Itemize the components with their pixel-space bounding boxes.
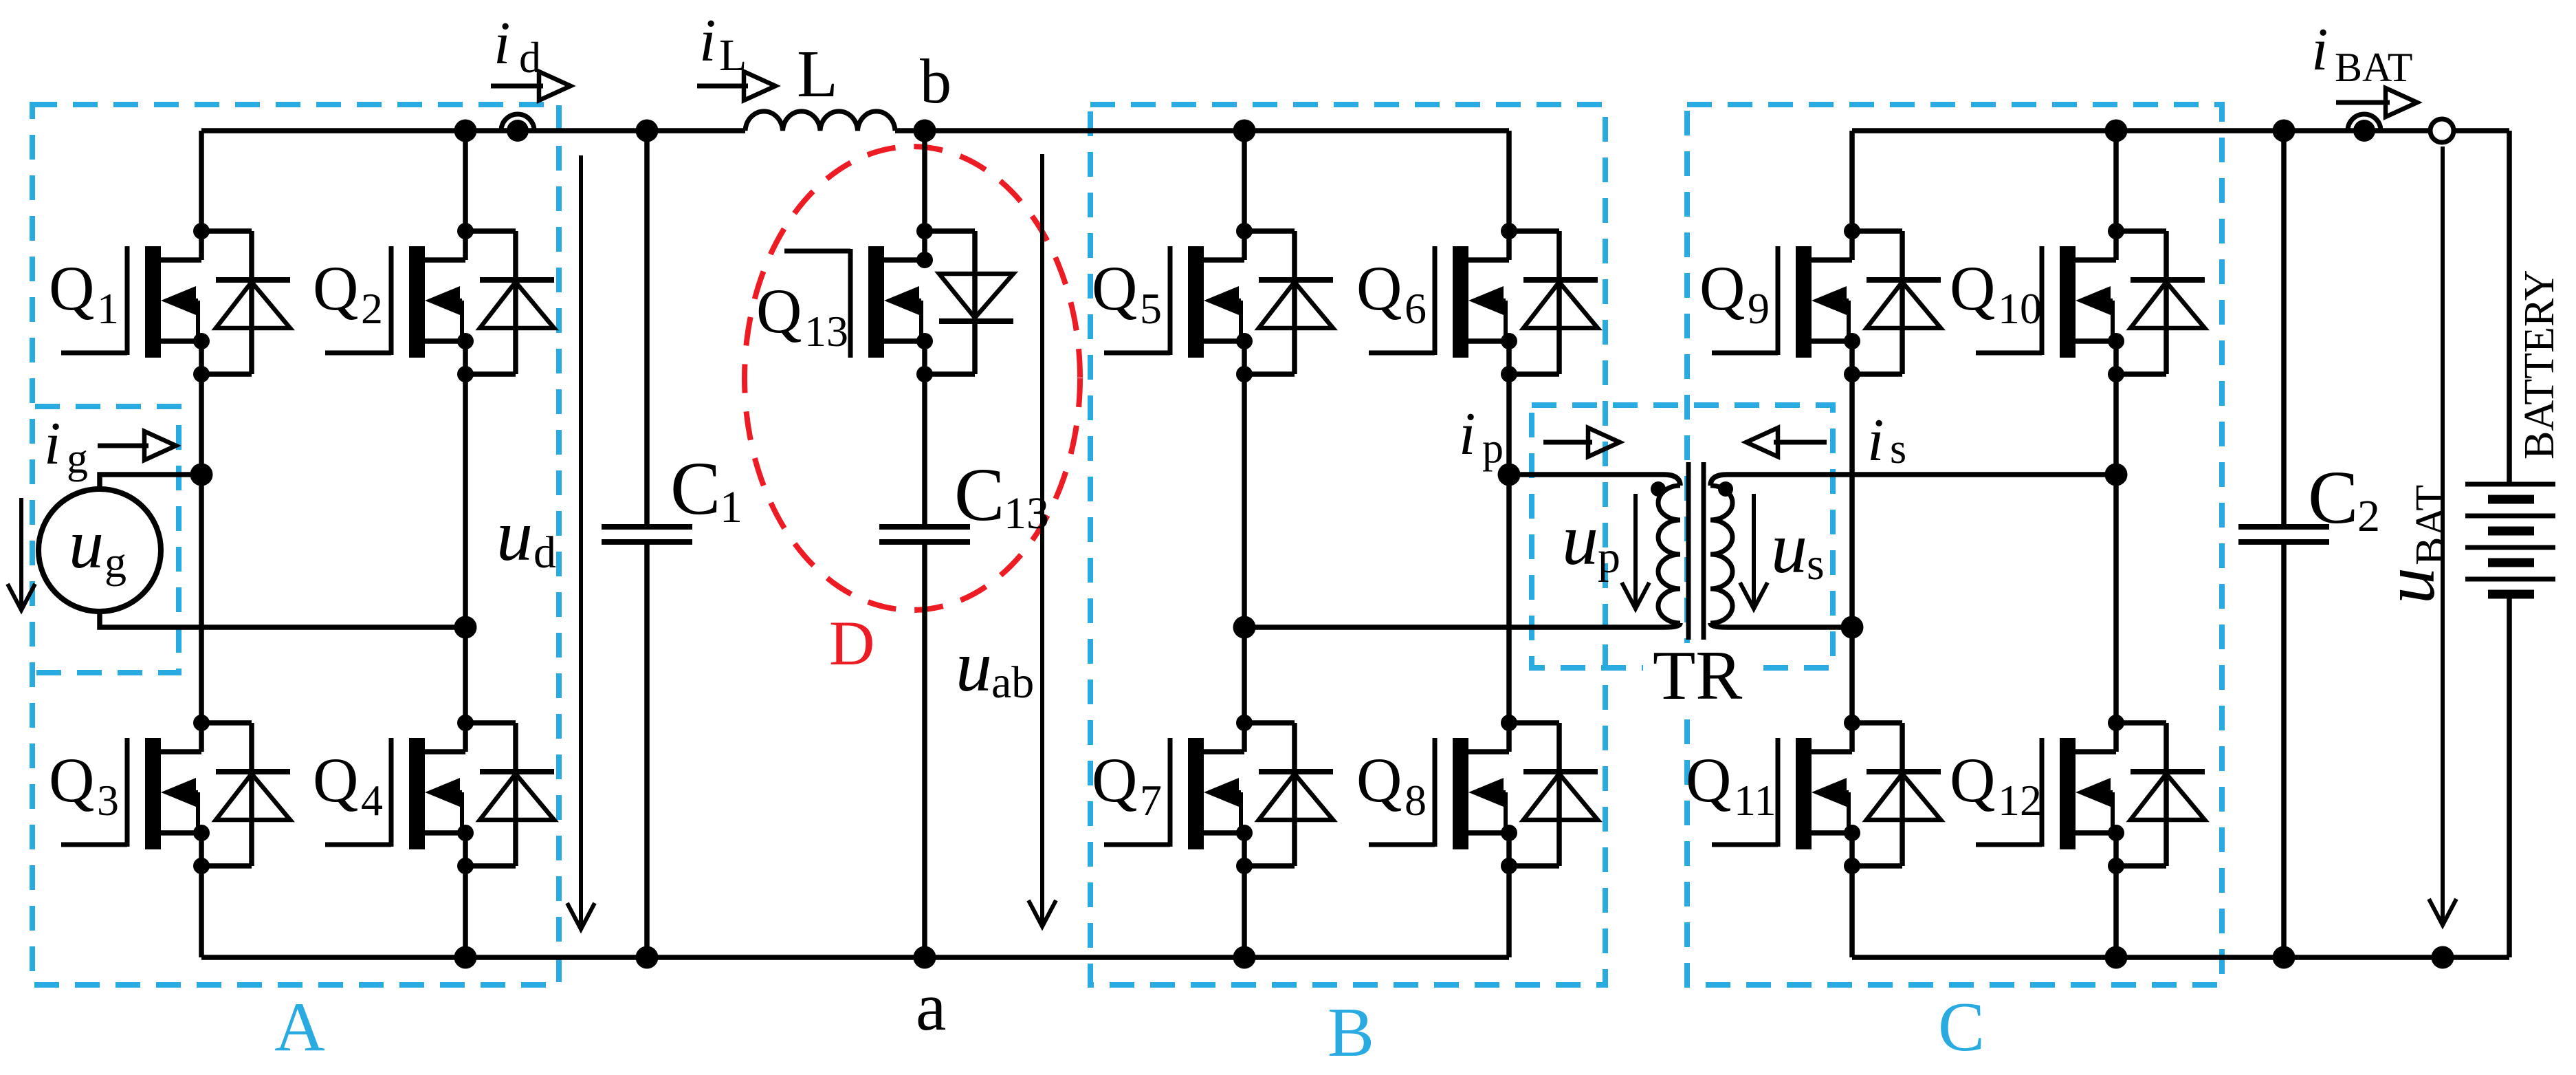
svg-text:8: 8 <box>1405 776 1427 825</box>
wire: ug bottom lead to node on leg Q2/Q4 <box>100 611 465 627</box>
wire: leg Q5/Q7 <box>1242 131 1247 260</box>
svg-text:A: A <box>274 988 325 1066</box>
svg-text:i: i <box>2311 17 2328 83</box>
wire: leg Q1/Q3 <box>199 131 204 260</box>
label Q4 <box>313 745 383 825</box>
svg-text:u: u <box>2369 567 2450 604</box>
wire: leg Q6/Q8 <box>1506 131 1512 260</box>
svg-text:B: B <box>1328 994 1374 1072</box>
svg-text:3: 3 <box>97 776 119 825</box>
capacitor C13 <box>879 527 970 542</box>
wire: battery leg <box>2507 131 2512 484</box>
transistor Q2 (MOSFET with body diode) <box>325 223 554 382</box>
dashed box TR (transformer) <box>1532 405 1833 668</box>
svg-text:i: i <box>1459 401 1475 468</box>
node: ug bottom tap <box>454 616 477 639</box>
transistor Q13 (MOSFET with body diode) <box>784 223 1013 382</box>
svg-text:L: L <box>797 37 838 111</box>
label Q8 <box>1356 745 1427 825</box>
label id <box>494 10 541 82</box>
wire: leg Q9/Q11 <box>1849 131 1855 260</box>
svg-text:Q: Q <box>1686 745 1731 815</box>
red dashed ellipse D (auxiliary circuit) <box>745 146 1080 610</box>
svg-text:C: C <box>670 446 720 530</box>
label us <box>1771 508 1825 589</box>
wire: ug top lead to node on leg Q1/Q3 <box>100 475 201 489</box>
label up <box>1562 499 1620 583</box>
label ig <box>44 411 88 482</box>
label uBAT (rotated) <box>2369 485 2454 604</box>
probe id (current measuring point on top rail) <box>501 114 534 142</box>
svg-text:1: 1 <box>97 284 119 333</box>
label Q9 <box>1699 253 1770 333</box>
arrow us <box>1752 494 1756 605</box>
dashed box B (primary full bridge) <box>1090 105 1605 985</box>
svg-text:u: u <box>69 506 104 583</box>
inductor L <box>745 111 895 131</box>
label Q13 <box>756 276 848 356</box>
terminal circle battery + <box>2430 119 2454 142</box>
svg-text:Q: Q <box>1092 745 1137 815</box>
node ip tap <box>1498 464 1521 486</box>
svg-text:u: u <box>956 626 992 706</box>
label C1 <box>670 446 742 532</box>
transistor Q1 (MOSFET with body diode) <box>61 223 290 382</box>
svg-text:Q: Q <box>313 253 358 323</box>
svg-text:7: 7 <box>1140 776 1162 825</box>
label iL <box>699 8 747 80</box>
transistor Q4 (MOSFET with body diode) <box>325 715 554 874</box>
svg-text:Q: Q <box>313 745 358 815</box>
dashed box C (secondary full bridge) <box>1687 105 2222 985</box>
svg-text:Q: Q <box>1356 745 1402 815</box>
transistor Q8 (MOSFET with body diode) <box>1369 715 1598 874</box>
node: top rail junction x=1810 <box>1233 120 1256 142</box>
svg-text:10: 10 <box>1998 284 2042 333</box>
svg-text:p: p <box>1598 532 1620 583</box>
svg-text:u: u <box>496 495 533 576</box>
svg-text:Q: Q <box>756 276 802 346</box>
polarity dot primary <box>1651 481 1666 497</box>
svg-text:4: 4 <box>361 776 383 825</box>
svg-text:i: i <box>494 10 510 77</box>
svg-text:Q: Q <box>1699 253 1745 323</box>
svg-text:TR: TR <box>1653 637 1742 715</box>
svg-text:ab: ab <box>991 658 1034 708</box>
wire: leg C2 <box>2281 131 2287 527</box>
arrow ig <box>98 444 148 448</box>
transistor Q5 (MOSFET with body diode) <box>1104 223 1333 382</box>
arrow uab <box>1040 154 1044 922</box>
svg-text:i: i <box>699 8 716 74</box>
label Q3 <box>49 745 119 825</box>
svg-text:6: 6 <box>1405 284 1427 333</box>
wire: bottom rail right (Q11 source to battery -) <box>1852 955 2509 960</box>
label uab <box>956 626 1034 708</box>
transistor Q9 (MOSFET with body diode) <box>1712 223 1941 382</box>
svg-text:Q: Q <box>49 745 94 815</box>
svg-text:BAT: BAT <box>2408 485 2454 565</box>
label Q2 <box>313 253 383 333</box>
node b <box>914 120 936 142</box>
svg-text:p: p <box>1482 425 1504 472</box>
node: top rail junction x=941 <box>636 120 659 142</box>
transistor Q12 (MOSFET with body diode) <box>1976 715 2205 874</box>
transistor Q7 (MOSFET with body diode) <box>1104 715 1333 874</box>
node: bottom rail junction x=1810 <box>1233 946 1256 969</box>
polarity dot secondary <box>1718 481 1733 497</box>
svg-text:1: 1 <box>720 482 742 532</box>
arrow iBAT <box>2336 100 2390 105</box>
node: bottom rail junction x=1345 <box>914 946 936 969</box>
svg-text:d: d <box>519 33 541 82</box>
svg-text:g: g <box>67 435 88 482</box>
svg-text:g: g <box>104 538 126 587</box>
node: top rail junction x=677 <box>454 120 477 142</box>
label iBAT <box>2311 17 2412 90</box>
arrow ug polarity (down) <box>19 498 23 606</box>
svg-text:b: b <box>920 46 951 116</box>
wire: top rail left (Q1 drain to Q6 drain, with inductor gap) <box>201 128 745 133</box>
arrow iL <box>697 84 748 89</box>
svg-text:C: C <box>1938 988 1985 1066</box>
node: top rail junction x=3078 <box>2105 120 2128 142</box>
node: bottom rail junction x=677 <box>454 946 477 969</box>
node secondary bottom tap <box>1841 616 1864 639</box>
label Q7 <box>1092 745 1162 825</box>
svg-text:s: s <box>1807 539 1825 589</box>
svg-text:i: i <box>44 411 60 477</box>
svg-text:Q: Q <box>49 253 94 323</box>
dashed box around source ug <box>35 406 179 673</box>
wire: leg Q13/C13 <box>922 131 927 260</box>
svg-text:C: C <box>2308 455 2358 539</box>
wire: bottom rail left (Q3 source to Q8 source) <box>201 955 1509 960</box>
arrow is <box>1774 440 1827 445</box>
svg-text:Q: Q <box>1092 253 1137 323</box>
svg-text:Q: Q <box>1950 745 1995 815</box>
transistor Q6 (MOSFET with body diode) <box>1369 223 1598 382</box>
svg-text:L: L <box>719 30 747 80</box>
dashed box A (grid-side full bridge) <box>32 105 559 985</box>
battery symbol <box>2465 484 2555 594</box>
arrow ud (dc-link voltage) <box>579 155 583 925</box>
transformer TR primary winding <box>1244 475 1680 627</box>
svg-text:13: 13 <box>804 307 848 356</box>
arrow uBAT <box>2441 146 2445 921</box>
svg-text:Q: Q <box>1356 253 1402 323</box>
label ug <box>69 506 126 587</box>
node secondary top tap <box>2105 464 2128 486</box>
label ip <box>1459 401 1504 472</box>
node: bottom rail junction x=3078 <box>2105 946 2128 969</box>
node: top rail junction x=3322 <box>2273 120 2296 142</box>
arrow id <box>491 84 543 89</box>
node: bottom rail junction x=3553 <box>2432 946 2454 969</box>
svg-text:BATTERY: BATTERY <box>2516 270 2563 459</box>
label C13 <box>954 453 1049 539</box>
transistor Q3 (MOSFET with body diode) <box>61 715 290 874</box>
capacitor C2 <box>2238 527 2329 542</box>
source ug (AC grid source) <box>38 489 161 611</box>
wire: top rail right (Q9 drain to battery +) <box>1852 128 2430 133</box>
wire: leg Q10/Q12 <box>2113 131 2119 260</box>
label Q1 <box>49 253 119 333</box>
label Q5 <box>1092 253 1162 333</box>
svg-text:Q: Q <box>1950 253 1995 323</box>
svg-text:i: i <box>1867 407 1884 474</box>
transistor Q11 (MOSFET with body diode) <box>1712 715 1941 874</box>
svg-text:9: 9 <box>1748 284 1770 333</box>
svg-text:2: 2 <box>361 284 383 333</box>
probe iBAT (current measuring point) <box>2348 114 2381 142</box>
svg-text:u: u <box>1562 499 1598 580</box>
node: top rail junction x=1345 <box>914 120 936 142</box>
arrow up <box>1633 494 1638 605</box>
label ud <box>496 495 556 578</box>
svg-text:s: s <box>1890 426 1906 473</box>
svg-text:a: a <box>916 968 946 1045</box>
wire: leg Q2/Q4 <box>463 131 468 260</box>
node: bottom rail junction x=3322 <box>2273 946 2296 969</box>
svg-text:BAT: BAT <box>2335 45 2412 90</box>
label Q12 <box>1950 745 2042 825</box>
svg-text:12: 12 <box>1998 776 2042 825</box>
svg-text:u: u <box>1771 508 1807 588</box>
svg-text:5: 5 <box>1140 284 1162 333</box>
wire: leg C1 <box>644 131 650 527</box>
svg-text:d: d <box>533 528 556 578</box>
svg-text:11: 11 <box>1734 776 1776 825</box>
svg-text:C: C <box>954 453 1004 536</box>
transistor Q10 (MOSFET with body diode) <box>1976 223 2205 382</box>
node: bottom rail junction x=941 <box>636 946 659 969</box>
label is <box>1867 407 1906 474</box>
label C2 <box>2308 455 2380 541</box>
node primary bottom tap <box>1233 616 1256 639</box>
label Q11 <box>1686 745 1776 825</box>
node: ug top tap <box>190 464 213 486</box>
label Q6 <box>1356 253 1427 333</box>
transformer TR secondary winding <box>1710 475 2116 627</box>
svg-text:D: D <box>829 608 874 678</box>
capacitor C1 <box>602 527 692 542</box>
transformer core <box>1688 462 1704 640</box>
arrow ip <box>1543 440 1592 445</box>
svg-text:2: 2 <box>2357 491 2380 541</box>
label Q10 <box>1950 253 2042 333</box>
